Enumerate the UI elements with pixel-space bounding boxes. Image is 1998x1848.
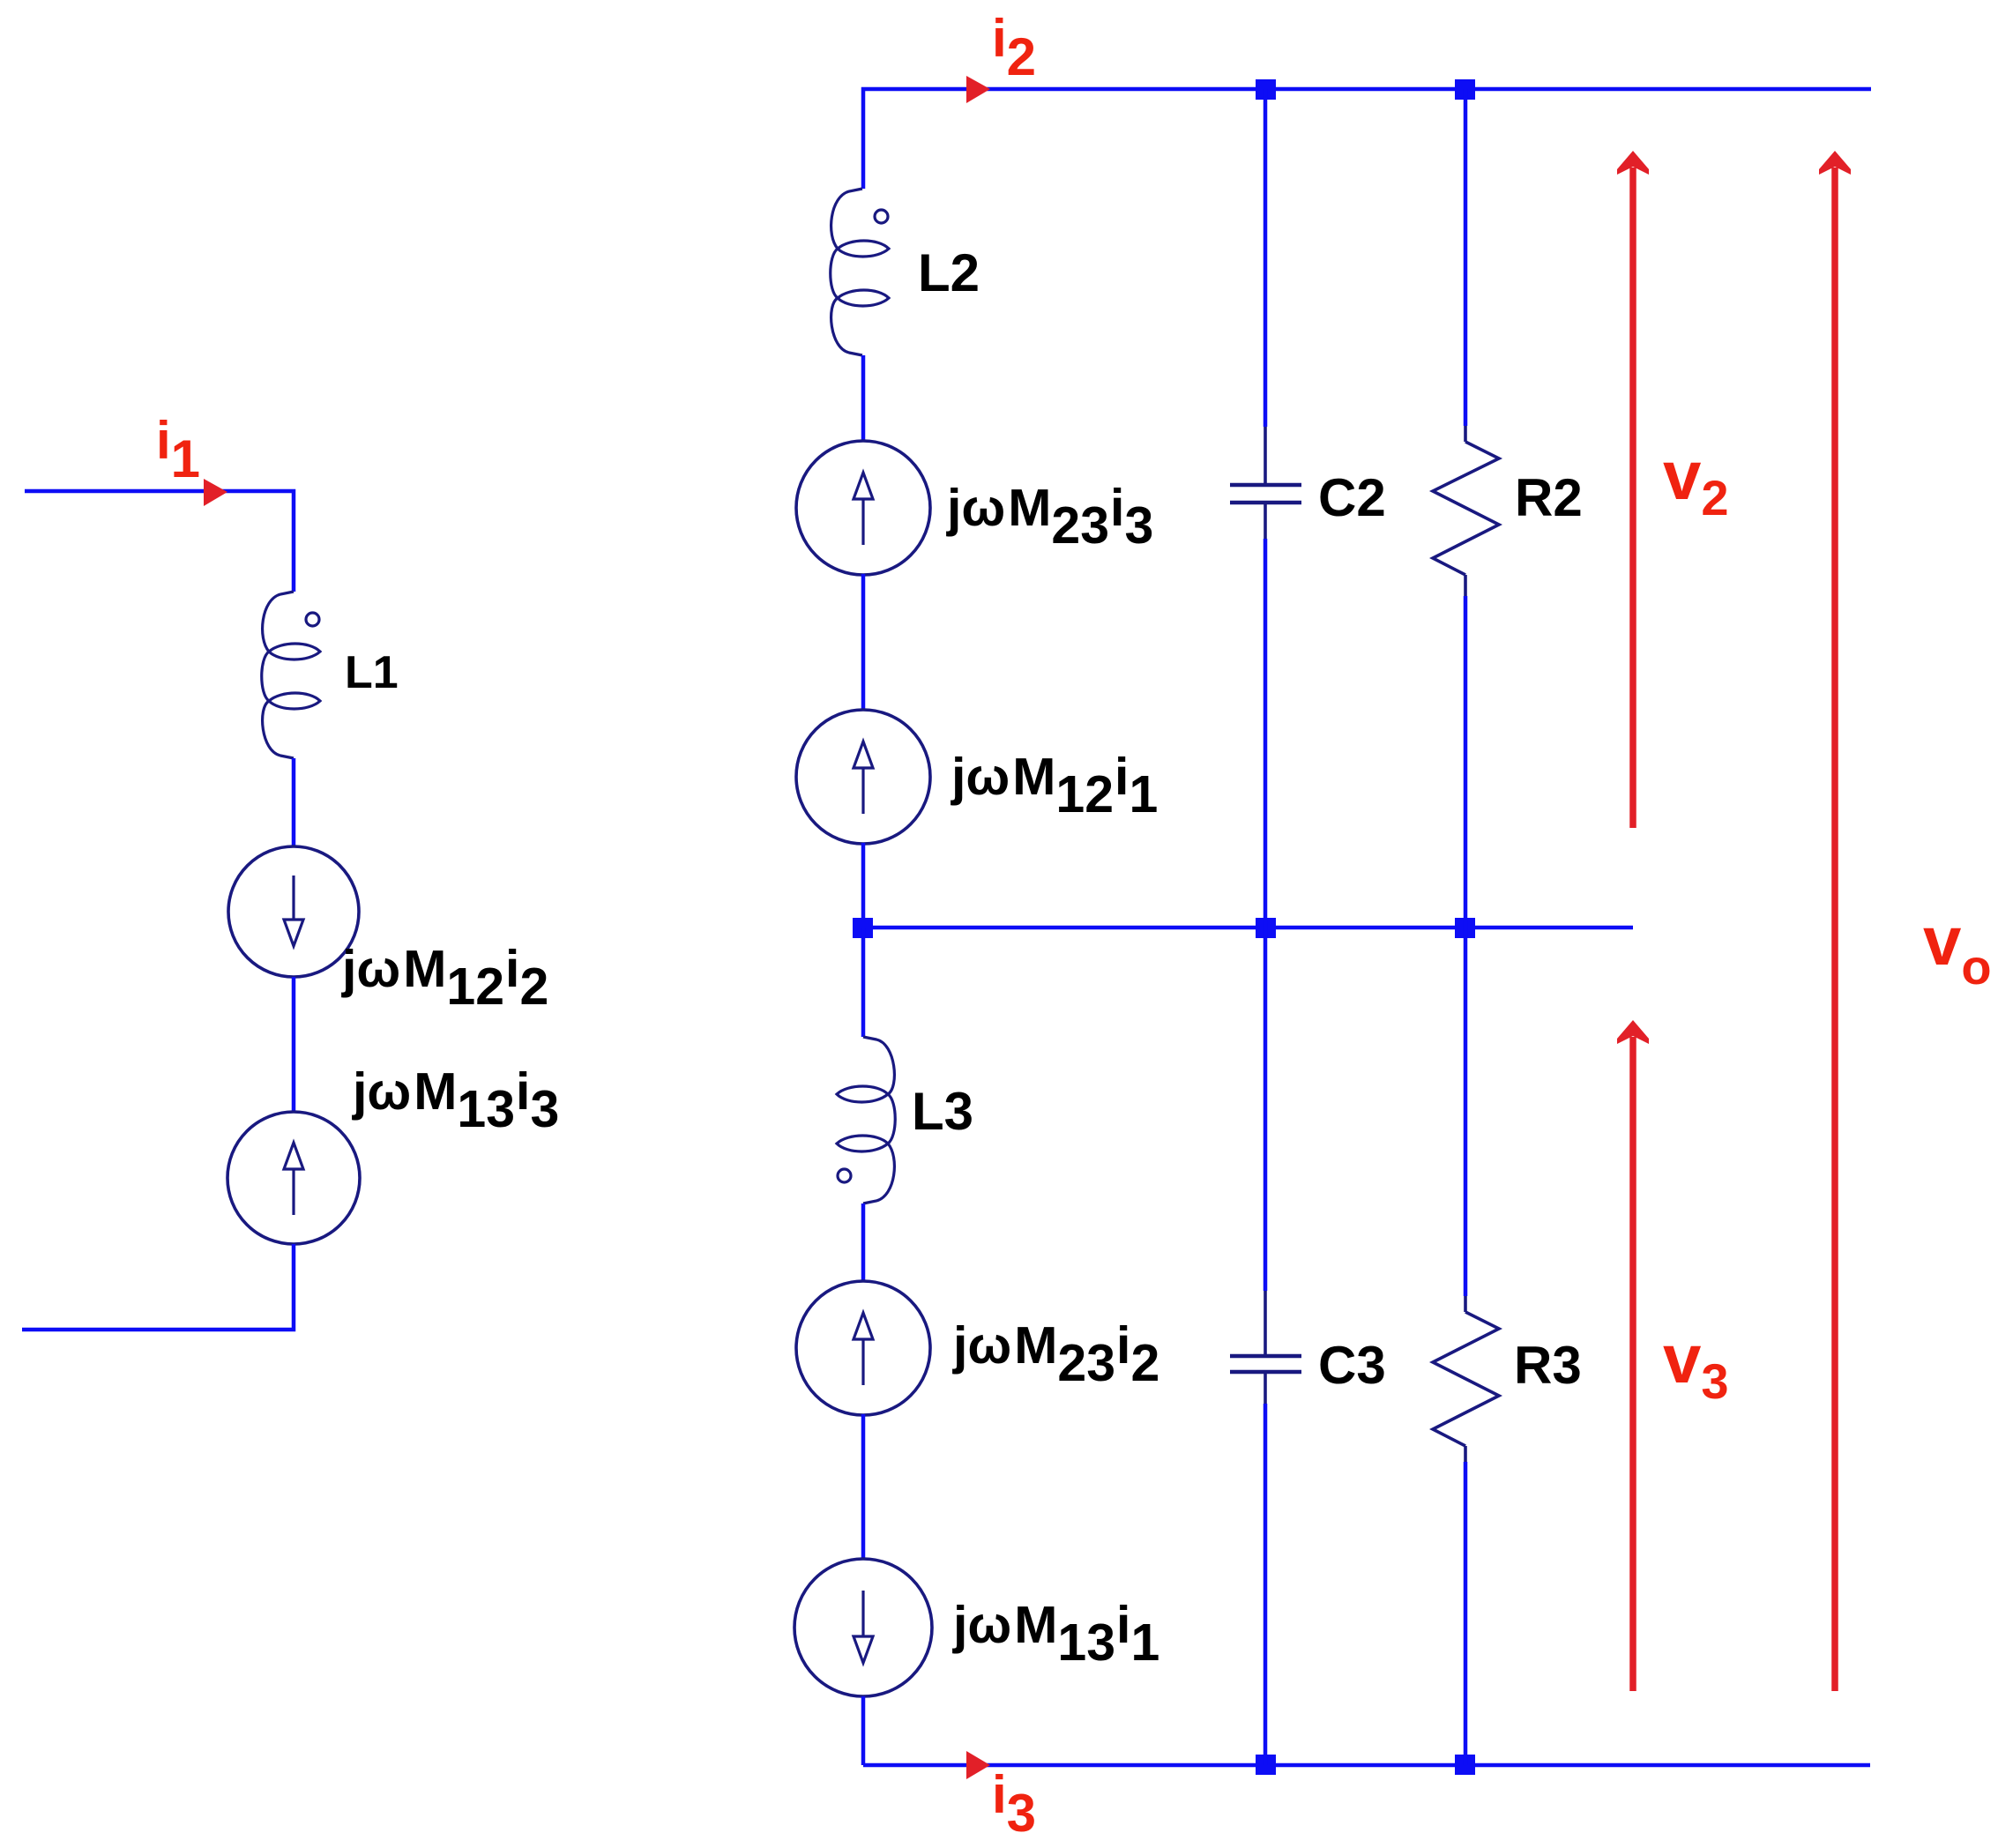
inductor L3 [837,1037,895,1203]
dependent current source jwM23i3 (up) [796,441,930,575]
wire: between left sources [292,977,296,1112]
svg-text:vo: vo [1923,902,1992,995]
wire: R3 navy lead top [1464,1296,1467,1312]
svg-text:i1: i1 [156,411,200,488]
wire: R column to middle rail [1464,596,1468,928]
resistor R2 [1433,442,1499,575]
wire: bottom rail [863,1763,1870,1768]
wire: source to bottom rail [861,1696,866,1765]
capacitor C3 [1230,1356,1301,1372]
wire: C column below middle rail [1264,928,1268,1291]
dependent current source jwM12i1 (up) [796,710,930,844]
svg-text:R3: R3 [1514,1336,1582,1395]
junction: bottom rail / R column [1455,1755,1475,1775]
wire: middle rail to L3 [861,928,866,1037]
wire: between right upper sources [861,574,866,711]
svg-text:v2: v2 [1663,436,1729,525]
svg-text:L2: L2 [918,243,980,302]
wire: C column upper lead [1264,89,1268,427]
wire: middle rail [863,926,1633,930]
current direction arrowhead i2 [966,76,990,103]
junction: top rail / C2 [1256,79,1276,100]
svg-text:C3: C3 [1318,1336,1386,1395]
junction: bottom rail / C column [1256,1755,1276,1775]
wire: L2 to source jwM23i3 [861,355,866,442]
svg-text:i2: i2 [992,9,1036,86]
wire: L3 to source jwM23i2 [861,1203,866,1282]
svg-text:jωM13i3: jωM13i3 [352,1062,559,1138]
svg-text:jωM12i1: jωM12i1 [951,748,1158,823]
svg-text:L3: L3 [912,1082,973,1141]
wire: source to middle rail [861,843,866,928]
inductor L2 [831,189,889,355]
wire: R3 navy lead bottom [1464,1446,1467,1462]
dependent current source jwM23i2 (up) [796,1281,930,1415]
wire: C2 navy lead bottom [1264,504,1267,539]
current direction arrowhead i3 [966,1751,990,1779]
wire: C3 navy lead top [1264,1291,1267,1354]
capacitor C2 [1230,485,1301,503]
junction: top rail / R2 [1455,79,1475,100]
svg-text:v3: v3 [1663,1320,1729,1409]
voltage arrow v2 [1617,151,1649,828]
svg-text:i3: i3 [992,1765,1036,1843]
wire: R column below middle rail [1464,928,1468,1296]
wire: C column to bottom rail [1264,1404,1268,1765]
dependent current source jwM13i1 (down) [794,1559,932,1696]
voltage arrow vo [1819,151,1851,1691]
voltage arrow v3 [1617,1020,1649,1691]
svg-text:jωM23i2: jωM23i2 [952,1316,1159,1392]
junction: middle rail left [853,918,873,938]
wire: top rail [863,89,1871,189]
wire: C3 navy lead bottom [1264,1374,1267,1404]
junction: middle rail / C column [1256,918,1276,938]
wire: R2 navy lead bottom [1464,575,1467,596]
svg-text:jωM13i1: jωM13i1 [952,1596,1159,1672]
current direction arrowhead i1 [204,479,227,506]
inductor L1 [262,592,320,758]
wire: left input top horizontal [25,491,294,592]
svg-text:R2: R2 [1515,468,1583,527]
dependent current source jwM12i2 (down) [228,846,359,977]
svg-text:jωM12i2: jωM12i2 [341,940,548,1016]
dependent current source jwM13i3 (up) [227,1112,360,1244]
wire: R column upper lead [1464,89,1468,426]
wire: between right lower sources [861,1414,866,1559]
wire: R column to bottom rail [1464,1462,1468,1765]
wire: C column to middle rail [1264,539,1268,928]
svg-text:C2: C2 [1318,468,1386,527]
resistor R3 [1433,1312,1499,1446]
wire: R2 navy lead top [1464,426,1467,442]
svg-text:L1: L1 [345,647,399,698]
wire: left bottom return [22,1244,294,1330]
svg-text:jωM23i3: jωM23i3 [946,479,1153,555]
junction: middle rail / R column [1455,918,1475,938]
wire: L1 to source jwM12i2 [292,758,296,846]
wire: C2 navy lead top [1264,427,1267,483]
